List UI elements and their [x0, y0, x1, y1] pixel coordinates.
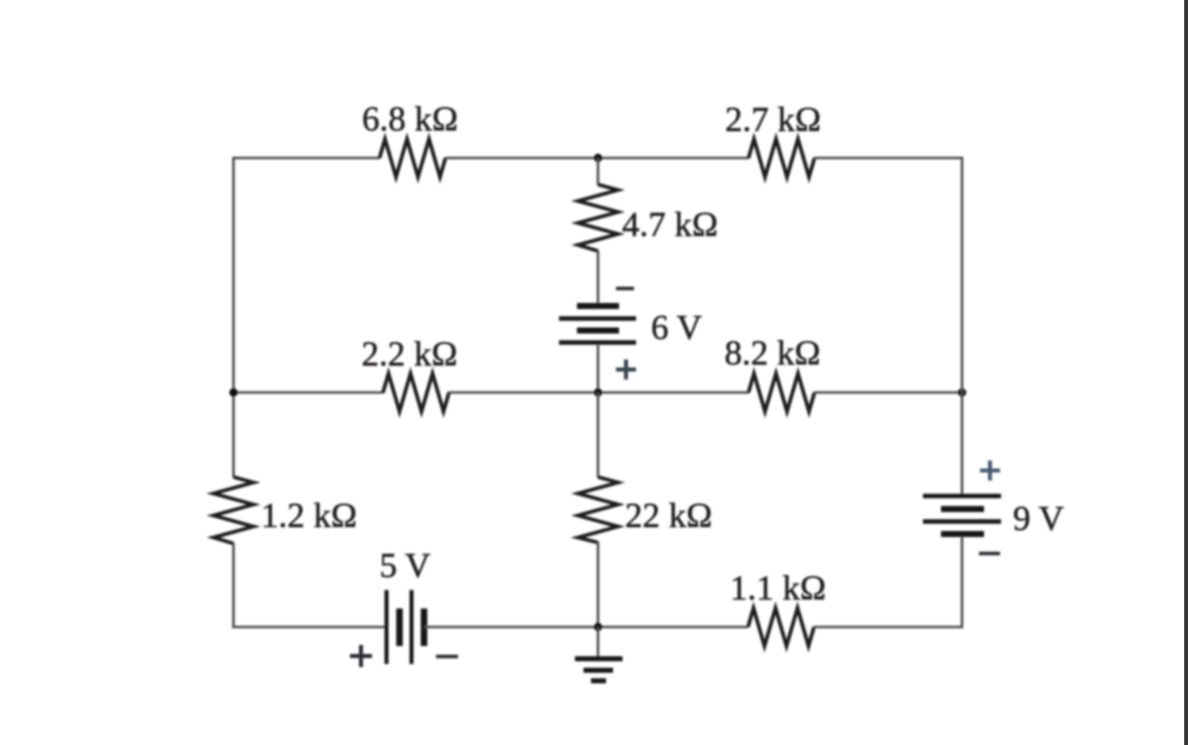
- battery 9V plate 1 long positive: [923, 494, 1001, 499]
- wire top-middle segment: [445, 157, 749, 160]
- battery 5V plate 1 long positive: [385, 590, 389, 664]
- battery 5V plate 3 long positive: [410, 590, 414, 664]
- wire ground stub: [597, 627, 600, 657]
- battery 6V plate 1 short negative: [577, 303, 619, 309]
- node dot left-middle junction: [229, 388, 237, 396]
- wire 22k to bottom junction: [597, 542, 600, 627]
- svg-text:4.7 kΩ: 4.7 kΩ: [622, 205, 718, 244]
- resistor 2.2 kOhm zigzag: [383, 374, 449, 412]
- battery 9V plus sign: [980, 461, 1000, 481]
- battery 5V minus sign: [436, 655, 458, 659]
- wire bottom-left segment: [232, 626, 387, 629]
- node dot bottom-middle junction: [594, 623, 602, 631]
- svg-text:2.2 kΩ: 2.2 kΩ: [361, 335, 457, 374]
- wire right vertical upper: [961, 157, 964, 495]
- battery 9V plate 2 short negative: [941, 506, 984, 512]
- battery 9V plate 4 short negative: [941, 531, 984, 537]
- svg-text:1.2 kΩ: 1.2 kΩ: [261, 496, 357, 535]
- wire top-left segment: [234, 157, 381, 160]
- ground symbol bar 1: [575, 656, 623, 661]
- battery 5V plate 4 short negative: [421, 609, 428, 647]
- battery 5V plus sign: [350, 645, 372, 667]
- node dot top-middle junction: [594, 154, 602, 162]
- svg-text:2.7 kΩ: 2.7 kΩ: [725, 100, 821, 139]
- battery 9V plate 3 long positive: [923, 519, 1001, 524]
- wire middle-row center segment: [448, 391, 749, 394]
- svg-text:9 V: 9 V: [1013, 499, 1064, 538]
- battery 6V minus sign: [616, 287, 634, 291]
- battery 6V plate 2 long positive: [559, 316, 636, 321]
- wire left vertical upper: [232, 157, 235, 478]
- svg-text:1.1 kΩ: 1.1 kΩ: [730, 569, 826, 608]
- resistor 2.7 kOhm zigzag: [749, 139, 815, 177]
- battery 6V plate 4 long positive: [559, 340, 636, 345]
- wire left vertical lower: [232, 543, 235, 628]
- svg-text:22 kΩ: 22 kΩ: [625, 496, 712, 535]
- resistor 4.7 kOhm zigzag: [578, 185, 618, 252]
- wire top-right segment: [814, 157, 962, 160]
- svg-text:6.8 kΩ: 6.8 kΩ: [362, 100, 458, 139]
- battery 5V plate 2 short negative: [396, 609, 403, 647]
- ground symbol bar 2: [584, 668, 614, 673]
- wire 6V battery to middle junction: [597, 344, 600, 393]
- resistor 6.8 kOhm zigzag: [380, 139, 446, 177]
- svg-text:6 V: 6 V: [651, 308, 702, 347]
- wire bottom-right segment: [814, 626, 963, 629]
- wire middle-row left segment: [234, 391, 385, 394]
- wire between 4.7k and 6V battery: [597, 251, 600, 305]
- svg-text:8.2 kΩ: 8.2 kΩ: [724, 334, 820, 373]
- ground symbol bar 3: [591, 678, 606, 683]
- resistor 1.1 kOhm zigzag: [748, 608, 814, 646]
- resistor 1.2 kOhm zigzag: [214, 477, 254, 544]
- battery 9V minus sign: [979, 552, 1000, 556]
- node dot right-middle junction: [958, 388, 966, 396]
- wire bottom-middle segment: [424, 626, 748, 629]
- wire middle-row right segment: [814, 391, 962, 394]
- resistor 8.2 kOhm zigzag: [749, 374, 815, 412]
- svg-text:5 V: 5 V: [380, 546, 431, 585]
- wire middle vertical top lead: [597, 158, 600, 185]
- battery 6V plate 3 short negative: [577, 328, 619, 334]
- page scan edge line right: [1184, 0, 1188, 745]
- node dot center junction: [594, 388, 602, 396]
- battery 6V plus sign: [616, 360, 636, 380]
- resistor 22 kOhm zigzag: [578, 477, 618, 543]
- wire middle vertical to 22k: [597, 393, 600, 478]
- wire right vertical lower: [961, 536, 964, 628]
